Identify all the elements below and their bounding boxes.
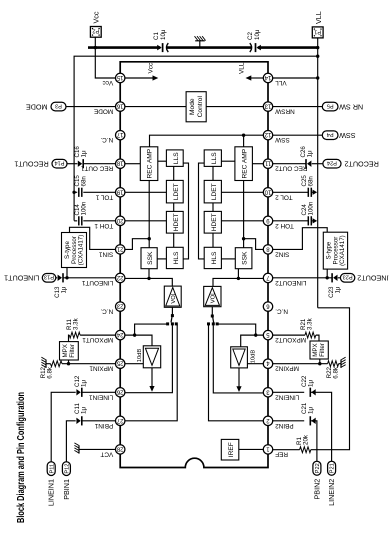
svg-text:1μ: 1μ (308, 380, 315, 387)
svg-text:Block Diagram and Pin Configur: Block Diagram and Pin Configuration (15, 392, 27, 523)
svg-text:LINEIN1: LINEIN1 (89, 393, 114, 400)
svg-text:LINEOUT2: LINEOUT2 (275, 279, 307, 286)
wire LLS2-LDET2 (212, 166, 214, 180)
pin 17 (N.C.) (116, 130, 125, 139)
IC body U1 (120, 62, 268, 468)
block HLS (ch2) (204, 247, 221, 268)
svg-text:SIN1: SIN1 (99, 250, 114, 257)
wire PBIN2 pin2 via C21 to pad P22 (272, 420, 304, 422)
capacitor C24 100n (307, 216, 309, 225)
switch source selector (ch1) (171, 307, 173, 315)
svg-text:SSK: SSK (242, 251, 249, 265)
svg-text:TOL 1: TOL 1 (95, 193, 113, 200)
wire MPX select (ch2) (219, 324, 256, 335)
wire SIN1 pin21 jog to REC/SSK line (125, 239, 150, 250)
svg-text:P3: P3 (55, 102, 62, 108)
pin 16 (MODE) (116, 102, 125, 111)
svg-text:HDET: HDET (211, 213, 218, 231)
svg-text:N.C.: N.C. (100, 308, 113, 315)
svg-text:26: 26 (116, 388, 123, 394)
ground (R22) (340, 360, 342, 368)
wire MPX select (ch1) (135, 324, 167, 335)
wire P2 to Vcc rail and pin 15 (95, 37, 116, 78)
wire TOH2 pin9 via C24 to VLL rail (arrow) (272, 220, 308, 222)
wire MPXIN2 pin4 via R22 to ground (272, 363, 327, 365)
pad P21 (328, 461, 336, 475)
pin 27 (PBIN1) (116, 416, 125, 425)
amplifier 10dB (ch1) (143, 346, 160, 368)
svg-text:RECOUT1: RECOUT1 (14, 159, 48, 168)
thin ground ring (top) (74, 56, 318, 220)
svg-text:P13: P13 (44, 274, 54, 280)
svg-text:LINEOUT2: LINEOUT2 (357, 274, 389, 283)
capacitor C2 (257, 45, 261, 51)
wire SSW pin12 to pad P4 (272, 134, 322, 136)
wire REC OUT1 pin18 via C16 to pad P14 (83, 163, 116, 165)
wire pin5 MPXOUT2 to 10dB amp2 input (241, 335, 264, 347)
pin 28 (VCT) (116, 445, 125, 454)
svg-text:6.8k: 6.8k (333, 366, 340, 379)
pin 11 (REC OUT2) (263, 159, 272, 168)
wire pin14 to VLL rail (272, 77, 317, 79)
pin 13 (NRSW) (263, 102, 272, 111)
wire LDET1-HDET1 (173, 203, 175, 212)
svg-text:20k: 20k (303, 434, 310, 445)
svg-text:P22: P22 (315, 463, 321, 473)
svg-text:MPX: MPX (312, 343, 319, 356)
wire MPXOUT1 pin24 via R11 to MPX filter (80, 334, 116, 336)
svg-text:C1: C1 (153, 32, 160, 40)
svg-text:MPXOUT2: MPXOUT2 (275, 336, 306, 343)
capacitor C16 1u (82, 159, 84, 168)
svg-text:VCT: VCT (100, 450, 113, 457)
wire LINEOUT2 pin7 via C23 to pad P23 (272, 277, 332, 279)
svg-text:10dB: 10dB (251, 350, 257, 364)
svg-text:TOH 2: TOH 2 (275, 222, 294, 229)
svg-text:VOL: VOL (211, 291, 217, 303)
block HDET (ch2) (204, 211, 221, 233)
svg-text:12: 12 (264, 131, 271, 137)
svg-text:24: 24 (116, 331, 123, 337)
svg-text:P24: P24 (327, 159, 337, 165)
svg-text:LINEIN2: LINEIN2 (327, 479, 336, 506)
svg-text:16: 16 (116, 103, 123, 109)
pin 10 (TOL 2) (263, 188, 272, 197)
svg-text:68n: 68n (308, 176, 315, 187)
wire REC AMP1 to LLS1 (158, 160, 167, 162)
ground (on Vcc rail) (199, 41, 201, 48)
wire pin24 MPXOUT1 to 10dB amp1 input (125, 335, 153, 346)
wire LINEOUT1 pin22 to VOL1 (125, 278, 173, 286)
svg-text:100n: 100n (308, 201, 315, 215)
svg-text:10μ: 10μ (254, 29, 261, 40)
svg-text:LLS: LLS (173, 152, 180, 164)
amplifier VOL (ch1) (164, 286, 181, 307)
svg-text:27: 27 (116, 417, 123, 423)
pin 7 (LINEOUT2) (263, 273, 272, 282)
svg-text:MODE: MODE (94, 108, 113, 115)
capacitor C11 1u (81, 416, 83, 425)
capacitor C13 1u (62, 273, 64, 282)
capacitor C26 1u (305, 159, 307, 168)
pad P24 (323, 159, 341, 168)
wire LINE select (ch2) / LINEIN2 internal (213, 325, 263, 393)
pad P4 (322, 131, 338, 140)
block REC AMP (ch2) (235, 147, 253, 181)
wire MODE pin16 to pad P3 (66, 106, 116, 108)
svg-text:1μ: 1μ (307, 150, 314, 157)
capacitor C21 1u (309, 416, 311, 425)
svg-text:TOH 1: TOH 1 (94, 222, 113, 229)
wire HDET2-HLS2 (212, 233, 214, 247)
wire SSK2-HLS2 (221, 258, 235, 260)
svg-text:Vcc: Vcc (92, 11, 101, 23)
wire LINE select (ch1) / LINEIN1 internal (125, 325, 173, 393)
block S-type Processor (CXA1417) ch2 (323, 232, 347, 269)
pad P11 (47, 462, 55, 476)
capacitor C25 68n (307, 188, 309, 197)
wire HDET1-HLS1 (173, 233, 175, 247)
pad P13 (42, 274, 56, 283)
wire SSK1-HLS1 (157, 258, 166, 260)
svg-text:PBIN2: PBIN2 (312, 479, 321, 500)
svg-text:13: 13 (264, 103, 271, 109)
svg-text:100n: 100n (81, 201, 88, 215)
svg-text:VLL: VLL (275, 79, 287, 86)
capacitor C22 1u (309, 388, 311, 397)
svg-text:1μ: 1μ (308, 407, 315, 414)
wire MODE pin16 to Mode Control (125, 106, 187, 108)
svg-text:MPXOUT1: MPXOUT1 (82, 336, 113, 343)
capacitor C12 1u (81, 388, 83, 397)
wire S-type1 output to LINEOUT1 (66, 268, 68, 278)
amplifier VOL (ch2) (204, 286, 221, 306)
pin 21 (SIN1) (116, 245, 125, 254)
svg-text:P11: P11 (49, 464, 55, 474)
ground (VCT) (78, 445, 80, 453)
svg-text:LINEIN2: LINEIN2 (275, 393, 300, 400)
svg-text:MPXIN2: MPXIN2 (275, 365, 299, 372)
svg-text:REF: REF (275, 450, 288, 457)
block LDET (ch1) (166, 180, 183, 203)
svg-text:6.8k: 6.8k (47, 366, 54, 379)
wire LLS2/HLS2 link line (199, 163, 205, 259)
wire LINEIN1 pin26 via C12 to pad P11 (82, 391, 116, 393)
svg-text:LINEOUT1: LINEOUT1 (82, 279, 114, 286)
wire 10dB amp1 output arrow (151, 368, 153, 387)
pin 5 (MPXOUT2) (263, 330, 272, 339)
pad P2 (Vcc) (90, 27, 101, 38)
wire MPXIN2 pin4 to amp2 (247, 363, 263, 365)
svg-text:HLS: HLS (173, 251, 180, 264)
svg-text:P5: P5 (327, 102, 334, 108)
wire TOL2 pin10 to LDET2 (221, 191, 263, 193)
wire TOL1 pin19 via C15 to ground ring (83, 191, 116, 193)
svg-text:LDET: LDET (173, 183, 180, 200)
pad P5 (322, 102, 338, 111)
pad P14 (52, 159, 67, 168)
pin 25 (MPXIN1) (116, 359, 125, 368)
svg-text:Mode: Mode (189, 98, 196, 115)
svg-text:14: 14 (264, 74, 271, 80)
pin 26 (LINEIN1) (116, 388, 125, 397)
svg-text:28: 28 (116, 445, 123, 451)
svg-text:RECOUT2: RECOUT2 (345, 159, 379, 168)
pin 20 (TOH 1) (116, 216, 125, 225)
pad P23 (340, 274, 354, 283)
svg-text:3.3k: 3.3k (307, 317, 314, 330)
capacitor C15 68n (78, 188, 80, 197)
block LDET (ch2) (204, 180, 221, 203)
svg-text:23: 23 (116, 303, 123, 309)
svg-text:19: 19 (116, 188, 123, 194)
wire MPXIN1 pin25 via R12 to ground (62, 363, 116, 365)
wire SSW pin12 to REC AMPs (150, 135, 264, 147)
pin 14 (VLL) (263, 73, 272, 82)
wire SIN1 pin21 to S-type processor (70, 227, 116, 249)
svg-text:25: 25 (116, 360, 123, 366)
svg-text:SIN2: SIN2 (275, 250, 290, 257)
wire REC OUT2 pin11 via C26 to pad P24 (272, 163, 306, 165)
svg-text:HDET: HDET (173, 213, 180, 231)
svg-text:NRSW: NRSW (274, 108, 294, 115)
Vcc rail (thick bus) (88, 46, 160, 49)
wire TOH1 pin20 to HDET1 (125, 220, 167, 222)
svg-text:PBIN1: PBIN1 (94, 422, 113, 429)
pad P12 (62, 462, 70, 476)
block HLS (ch1) (166, 247, 183, 268)
svg-text:1μ: 1μ (81, 150, 88, 157)
svg-text:REC OUT2: REC OUT2 (275, 165, 308, 172)
block MPX Filter ch2 (310, 341, 328, 359)
capacitor C1 (157, 45, 161, 51)
pin 6 (N.C.) (263, 302, 272, 311)
pin 23 (N.C.) (116, 302, 125, 311)
block REC AMP (ch1) (140, 147, 158, 181)
svg-text:SSK: SSK (147, 251, 154, 265)
Vcc internal arrow (pin 15) (125, 77, 154, 79)
pin 1 (REF) (263, 445, 272, 454)
svg-text:SSW: SSW (274, 136, 290, 143)
pad P22 (313, 461, 321, 475)
svg-text:SSW: SSW (339, 131, 356, 140)
wire IREF to pin1 REF (239, 448, 264, 450)
wire NRSW pin13 to Mode Control (206, 106, 264, 108)
svg-text:18: 18 (116, 160, 123, 166)
pin 22 (LINEOUT1) (116, 273, 125, 282)
wire TOH2 pin9 to HDET2 (221, 220, 263, 222)
wire LINEOUT1 pin22 via C13 to pad P13 (63, 277, 116, 279)
svg-text:(CXA1417): (CXA1417) (78, 235, 85, 266)
svg-text:68n: 68n (81, 176, 88, 187)
block SSK (ch2) (235, 248, 252, 269)
svg-text:(CXA1417): (CXA1417) (339, 235, 346, 266)
wire LINEIN2 pin3 via C22 to pad P21 (272, 391, 304, 393)
block MPX Filter ch1 (60, 342, 79, 360)
svg-text:MPX: MPX (62, 344, 69, 357)
wire S-type2 output to LINEOUT2 (326, 269, 328, 278)
wire 10dB amp2 output arrow (238, 368, 240, 387)
wire LINEOUT2 pin7 to VOL2 (213, 278, 264, 286)
resistor R1 20k (300, 447, 311, 453)
resistor R22 6.8k (328, 361, 339, 367)
wire TOL1 pin19 to LDET1 (125, 191, 167, 193)
svg-text:11: 11 (264, 160, 271, 166)
capacitor C23 1u (331, 273, 333, 282)
pin 8 (SIN2) (263, 245, 272, 254)
svg-text:1μ: 1μ (81, 407, 88, 414)
capacitor C14 100n (78, 216, 80, 225)
svg-text:10dB: 10dB (137, 349, 143, 363)
resistor R11 3.3k (69, 332, 80, 338)
svg-text:P21: P21 (330, 463, 336, 473)
svg-text:Filter: Filter (319, 343, 326, 357)
svg-text:MODE: MODE (26, 102, 48, 111)
svg-text:REC OUT1: REC OUT1 (80, 165, 113, 172)
svg-text:1μ: 1μ (81, 380, 88, 387)
svg-text:NR SW: NR SW (339, 102, 363, 111)
ground (R12) (45, 360, 47, 368)
block Mode Control (186, 92, 206, 122)
pin 2 (PBIN2) (263, 416, 272, 425)
svg-text:VOL: VOL (171, 291, 177, 303)
wire LDET2-HDET2 (212, 203, 214, 212)
pin 15 (Vcc) (116, 73, 125, 82)
wire LLS1/HLS1 link line (183, 163, 188, 259)
wire SSK2 to LINEOUT2 line (237, 269, 239, 279)
wire SIN2 pin8 jog to REC/SSK line (244, 239, 264, 250)
svg-text:C2: C2 (247, 32, 254, 40)
pin 19 (TOL 1) (116, 188, 125, 197)
pad P3 (51, 102, 66, 111)
switch source selector (ch2) (211, 307, 213, 316)
wire MPXIN1 pin25 to amp1 (125, 363, 144, 365)
pin 9 (TOH 2) (263, 216, 272, 225)
svg-text:LDET: LDET (211, 183, 218, 200)
svg-text:PBIN2: PBIN2 (275, 422, 294, 429)
amplifier 10dB (ch2) (231, 347, 248, 368)
svg-text:21: 21 (116, 245, 123, 251)
pin 3 (LINEIN2) (263, 388, 272, 397)
wire PBIN1 pin27 via C11 to pad P12 (82, 420, 116, 422)
svg-text:P2: P2 (92, 28, 99, 34)
svg-text:HLS: HLS (211, 251, 218, 264)
svg-text:P23: P23 (343, 274, 353, 280)
svg-text:Vcc: Vcc (102, 79, 113, 86)
block SSK (ch1) (141, 248, 157, 269)
svg-text:22: 22 (116, 274, 123, 280)
svg-text:VLL: VLL (239, 62, 246, 74)
svg-text:Control: Control (197, 96, 204, 118)
wire REC AMP1 - SSK1 (148, 181, 150, 248)
svg-text:1μ: 1μ (60, 286, 67, 293)
block LLS (ch1) (166, 150, 183, 167)
svg-text:REC AMP: REC AMP (241, 148, 248, 178)
svg-text:3.3k: 3.3k (73, 317, 80, 330)
pin 18 (REC OUT1) (116, 159, 125, 168)
svg-text:Filter: Filter (69, 344, 76, 358)
svg-text:VLL: VLL (314, 11, 323, 24)
svg-text:10μ: 10μ (160, 29, 167, 40)
pin 12 (SSW) (263, 130, 272, 139)
wire NRSW pin13 to pad P5 (272, 106, 322, 108)
VLL internal arrow (pin 14) (251, 77, 264, 79)
wire TOH1 pin20 via C14 to ground ring (83, 220, 116, 222)
block IREF (221, 439, 239, 460)
svg-text:MPXIN1: MPXIN1 (89, 365, 113, 372)
svg-text:N.C.: N.C. (100, 136, 113, 143)
block LLS (ch2) (204, 150, 221, 167)
wire pin11 REC OUT2 to REC AMP2 (252, 163, 263, 165)
svg-text:15: 15 (116, 74, 123, 80)
svg-text:LINEIN1: LINEIN1 (47, 479, 56, 506)
resistor R12 6.8k (51, 361, 63, 367)
wire REC AMP2 to LLS2 (221, 160, 235, 162)
wire REC AMP2 - SSK2 (243, 181, 245, 248)
svg-text:PBIN1: PBIN1 (62, 479, 71, 500)
wire PB select (ch1) / PBIN1 internal (125, 324, 178, 421)
svg-text:LLS: LLS (211, 152, 218, 164)
resistor R21 3.3k (305, 332, 316, 338)
svg-text:1μ: 1μ (335, 286, 342, 293)
wire pin18 REC OUT1 to REC AMP1 (125, 163, 141, 165)
wire VLL rail (vertical line feeding pin14/P1) (317, 38, 319, 308)
wire LLS1-LDET1 (173, 166, 175, 180)
svg-text:N.C.: N.C. (275, 308, 288, 315)
svg-text:IREF: IREF (228, 442, 235, 457)
svg-text:Vcc: Vcc (148, 62, 155, 73)
svg-text:10: 10 (264, 188, 271, 194)
pin 4 (MPXIN2) (263, 359, 272, 368)
block S-type Processor (CXA1417) ch1 (62, 233, 87, 268)
wire SIN2 pin8 to S-type processor 2 (272, 228, 327, 250)
svg-text:P4: P4 (327, 131, 334, 137)
svg-text:P1: P1 (314, 28, 321, 34)
svg-text:P14: P14 (55, 159, 65, 165)
pad P1 (VLL) (312, 27, 323, 38)
wire REF pin1 via R1 20k to VLL rail jog (272, 449, 299, 451)
pin 24 (MPXOUT1) (116, 330, 125, 339)
wire TOL2 pin10 via C25 to VLL rail (arrow) (272, 191, 308, 193)
wire MPXOUT2 pin5 via R21 to MPX filter 2 (272, 334, 305, 336)
svg-text:REC AMP: REC AMP (147, 148, 154, 178)
svg-text:LINEOUT1: LINEOUT1 (4, 274, 39, 283)
wire VCT pin28 to ground (79, 448, 116, 450)
svg-text:TOL 2: TOL 2 (275, 193, 293, 200)
svg-text:P12: P12 (65, 464, 71, 474)
wire PB select (ch2) / PBIN2 internal (208, 324, 263, 421)
block HDET (ch1) (166, 211, 183, 233)
wire SSK1 to LINEOUT1 line (148, 269, 150, 279)
svg-text:17: 17 (116, 131, 123, 137)
svg-text:20: 20 (116, 217, 123, 223)
